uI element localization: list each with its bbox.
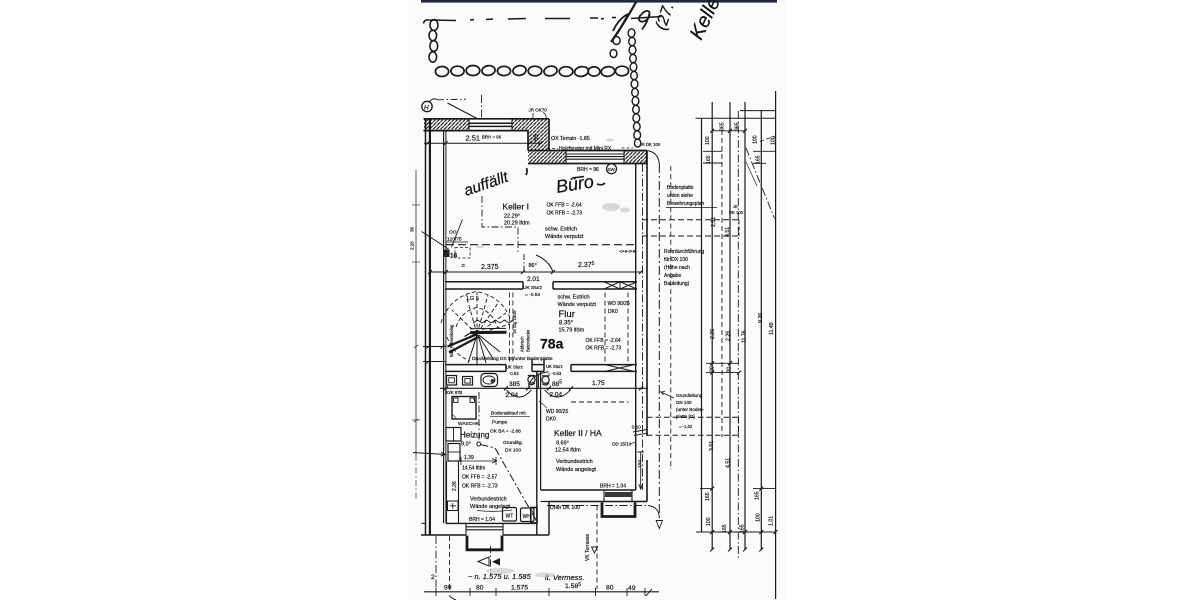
Keller II light shaft [602, 503, 635, 517]
diagonal leader to wall [448, 103, 478, 119]
north wall upper band hatch A [424, 119, 469, 131]
svg-text:UK Sturz: UK Sturz [523, 285, 543, 291]
bath south wall inner [446, 522, 538, 524]
east wall axis dash-dot [642, 164, 644, 490]
circled marker H top left [422, 101, 432, 111]
circled SW marker [607, 164, 617, 174]
svg-text:2.26: 2.26 [410, 241, 415, 250]
short solid diagonal [746, 162, 757, 186]
svg-text:JR DK 100: JR DK 100 [640, 142, 661, 147]
svg-text:=: = [462, 264, 466, 270]
svg-text:1.575: 1.575 [511, 585, 528, 592]
dashed line in Keller II [571, 401, 629, 403]
svg-text:165: 165 [755, 491, 761, 500]
dimension tick rows bottom [700, 488, 776, 490]
WH box [521, 508, 535, 522]
WC square fixture 2 [463, 377, 473, 386]
svg-text:1.75: 1.75 [592, 380, 605, 387]
dimension tick rows middle [706, 363, 739, 372]
right survey section vertical line 4 [760, 110, 762, 550]
svg-text:OK RFB = -2.73: OK RFB = -2.73 [462, 484, 498, 490]
svg-text:UK Sturz: UK Sturz [506, 365, 523, 370]
svg-text:Holzfenster mit Mini RX: Holzfenster mit Mini RX [559, 146, 612, 152]
svg-text:für DX 100: für DX 100 [664, 257, 688, 263]
svg-text:2.51: 2.51 [466, 134, 481, 143]
pier box bath SE corner [531, 508, 537, 524]
svg-text:Pumpe: Pumpe [492, 420, 508, 426]
swing marks [528, 376, 550, 386]
svg-text:DK0: DK0 [608, 309, 618, 315]
svg-text:14.54 lfdm: 14.54 lfdm [462, 466, 485, 472]
svg-text:BRH = 1.04: BRH = 1.04 [469, 517, 495, 523]
right survey section vertical line 0 [701, 118, 703, 532]
svg-text:DK0: DK0 [546, 417, 556, 423]
middle wall Heizung / Keller II [537, 371, 549, 535]
svg-text:Rohrdurchführung: Rohrdurchführung [664, 249, 705, 255]
svg-text:1.01: 1.01 [769, 516, 775, 526]
Grundleitung dashed trench box [647, 417, 739, 435]
west party wall lines [426, 119, 446, 535]
svg-text:unten siehe: unten siehe [667, 193, 693, 199]
Keller II floor south wall inner [541, 489, 636, 491]
leader from left [413, 452, 446, 456]
svg-text:Grundleitung: Grundleitung [676, 393, 703, 398]
svg-text:22.29°: 22.29° [504, 214, 520, 220]
north wall upper outlines [424, 119, 648, 164]
svg-text:16 Stg 18/25: 16 Stg 18/25 [512, 310, 517, 334]
svg-text:WD 90/25: WD 90/25 [546, 409, 568, 415]
Keller II window jambs [603, 490, 605, 502]
bath south wall outer [421, 534, 466, 536]
svg-text:4.51: 4.51 [725, 227, 731, 237]
svg-text:Verbundestrich: Verbundestrich [556, 459, 593, 465]
scan top bar [421, 0, 777, 3]
handwriting Ha [610, 2, 661, 58]
chimney block [452, 397, 476, 420]
lower window jambs and glazing [566, 151, 624, 164]
svg-text:OK FFB = -2.57: OK FFB = -2.57 [462, 475, 497, 481]
duct shaft dashed [604, 293, 606, 365]
bottom connector horizontal [696, 531, 777, 533]
flue shaft against west wall [446, 461, 448, 523]
svg-text:-0+8-0+8: -0+8-0+8 [619, 249, 636, 254]
site boundary dashed line [424, 18, 617, 24]
rotated dim labels top [705, 122, 777, 164]
svg-text:65: 65 [534, 134, 540, 141]
right survey section long vertical line 5 [775, 91, 777, 599]
small corner jog bottom left [422, 522, 426, 524]
svg-text:20: 20 [727, 367, 733, 373]
svg-text:Bad Fliesenbelag: Bad Fliesenbelag [449, 324, 454, 357]
right survey dashed vertical [721, 130, 723, 437]
svg-text:Bewehrungsplan: Bewehrungsplan [667, 201, 704, 207]
svg-text:30/K 87B: 30/K 87B [445, 390, 462, 395]
svg-text:2.26: 2.26 [452, 481, 458, 491]
dash-dot line below building left [435, 536, 437, 592]
svg-text:Bauleitung): Bauleitung) [664, 281, 690, 287]
svg-text:385: 385 [509, 381, 520, 388]
svg-text:-0.53: -0.53 [509, 371, 519, 376]
axis arrowhead [656, 521, 662, 529]
svg-text:= -0.63: = -0.63 [548, 371, 562, 376]
svg-text:9.26: 9.26 [758, 313, 764, 323]
svg-text:165: 165 [722, 524, 728, 533]
svg-text:36: 36 [410, 226, 415, 232]
svg-text:2: 2 [431, 574, 435, 581]
dashed line below building left 2 [449, 536, 451, 590]
WT box [503, 508, 517, 522]
dashed pipe run horizontals top right [642, 219, 739, 221]
svg-text:JR: JR [733, 205, 738, 209]
svg-text:165: 165 [756, 155, 762, 164]
svg-text:Wände angelegt: Wände angelegt [556, 467, 597, 473]
svg-text:schw. Estrich: schw. Estrich [558, 295, 590, 301]
svg-text:365: 365 [720, 122, 726, 131]
svg-text:WASCHK.: WASCHK. [458, 421, 480, 427]
north wall lower band hatch west [528, 151, 566, 164]
svg-text:165: 165 [706, 155, 712, 164]
svg-text:4.51: 4.51 [726, 458, 732, 468]
svg-text:Bodenablauf mit: Bodenablauf mit [491, 411, 526, 417]
svg-text:100: 100 [706, 517, 712, 526]
svg-text:86°: 86° [529, 263, 537, 269]
svg-text:Wände verputzt: Wände verputzt [558, 302, 597, 308]
Bodenplatte note [667, 185, 704, 207]
svg-text:= -0.53: = -0.53 [525, 292, 540, 298]
svg-text:S 10: S 10 [632, 425, 642, 430]
svg-text:BRH = 1.04: BRH = 1.04 [600, 484, 626, 490]
svg-text:2.04: 2.04 [506, 392, 519, 399]
svg-text:Heizung: Heizung [460, 431, 489, 440]
svg-text:SW: SW [608, 167, 616, 172]
right survey section vertical line 3 [744, 102, 746, 550]
section marker A [478, 557, 489, 566]
svg-text:165: 165 [740, 524, 746, 533]
svg-text:2.01: 2.01 [527, 276, 540, 283]
svg-text:OK FFB = -2.64: OK FFB = -2.64 [586, 338, 621, 344]
svg-text:DK 100: DK 100 [729, 210, 744, 215]
svg-text:WT: WT [506, 514, 514, 520]
svg-text:OK BA = -2.68: OK BA = -2.68 [490, 429, 521, 435]
rotated dim labels middle [709, 217, 775, 468]
dimension line 2.51 [424, 142, 542, 144]
wall Flur south [445, 359, 637, 372]
right survey section vertical line 2 [729, 102, 731, 550]
dash-dot leader top left [437, 98, 466, 101]
Draen DK 100 dash-dot [547, 505, 648, 507]
svg-text:3.51: 3.51 [709, 441, 715, 451]
svg-text:8.35°: 8.35° [559, 321, 574, 327]
wall Keller I / Flur [445, 282, 637, 289]
Grundleitung note right [676, 393, 705, 419]
svg-text:(unter Boden-: (unter Boden- [676, 407, 705, 412]
svg-text:Wände verputzt: Wände verputzt [545, 234, 584, 240]
svg-text:16: 16 [450, 253, 458, 260]
svg-text:OK RFB = -2.73: OK RFB = -2.73 [586, 346, 622, 352]
svg-text:VK Terrasse: VK Terrasse [585, 534, 591, 561]
svg-text:80: 80 [606, 585, 614, 592]
svg-text:schw. Estrich: schw. Estrich [545, 227, 577, 233]
dimension line Keller I south [430, 271, 642, 273]
svg-text:LG 5: LG 5 [467, 296, 479, 302]
svg-text:2.375: 2.375 [481, 264, 499, 271]
leaders to west window [422, 232, 449, 250]
axis dash-dot vertical above wall [481, 95, 483, 119]
VK Terrasse dashed line [596, 506, 598, 590]
svg-text:12.54 lfdm: 12.54 lfdm [555, 448, 581, 454]
svg-text:100: 100 [705, 136, 711, 145]
svg-text:Druckleitung DX 50/unter Boden: Druckleitung DX 50/unter Bodenplatte [472, 356, 553, 362]
svg-text:OD 15/10: OD 15/10 [612, 442, 632, 447]
boundary marker oval chain horizontal row [435, 65, 628, 78]
Rohrdurchfuehrung note [664, 249, 705, 287]
svg-text:20.29 lfdm: 20.29 lfdm [504, 221, 530, 227]
svg-text:OX Terrain -1.85: OX Terrain -1.85 [551, 136, 590, 142]
svg-text:JR OK70: JR OK70 [529, 108, 548, 113]
svg-text:165: 165 [705, 492, 711, 501]
tick slashes [710, 129, 777, 552]
svg-text:20: 20 [710, 366, 716, 372]
parallel dashed axis line [670, 166, 672, 470]
svg-text:BRH = 96: BRH = 96 [482, 135, 502, 140]
west wall window dark mark [443, 250, 450, 258]
top connector horizontal short [740, 110, 776, 112]
right survey section vertical line 1 [711, 102, 713, 550]
svg-text:platte [G]: platte [G] [676, 414, 695, 419]
svg-text:Keller II / HA: Keller II / HA [554, 428, 602, 438]
crossed lintel box north [604, 282, 637, 289]
axis dash-dot line with corner curve at building NE [648, 151, 660, 165]
faint pencil notes [468, 572, 584, 582]
svg-text:DN 100: DN 100 [676, 400, 692, 405]
svg-text:100: 100 [756, 513, 762, 522]
party wall dimension ticks [423, 345, 446, 364]
svg-text:Betondecke: Betondecke [526, 329, 531, 352]
svg-text:15.79 lfdm: 15.79 lfdm [559, 328, 585, 334]
north wall upper band hatch B [512, 119, 549, 131]
short dashed diagonal top right [760, 136, 777, 142]
floor drain pipe dash-dot [478, 392, 480, 442]
diagonal dash-dot leader right [746, 148, 775, 219]
dash-dot door axis Keller I [482, 196, 518, 254]
WC square fixture 1 [447, 376, 457, 386]
basin fixture [481, 374, 498, 387]
dimension tick rows top [703, 131, 776, 164]
svg-text:1.39: 1.39 [464, 455, 474, 461]
property line far left [415, 170, 417, 455]
north wall step hatch block [528, 131, 549, 151]
Keller II window dark sill [605, 492, 632, 497]
svg-text:= -1.62: = -1.62 [679, 424, 693, 429]
svg-text:100: 100 [753, 135, 759, 144]
svg-text:Angabe: Angabe [664, 273, 681, 279]
rotated dim labels bottom [705, 491, 775, 533]
svg-text:365: 365 [735, 122, 741, 131]
svg-text:99: 99 [444, 585, 452, 592]
Keller I door leaf and arc [523, 254, 525, 273]
east exterior wall lines [636, 151, 647, 502]
svg-text:100: 100 [771, 136, 777, 145]
svg-text:Keller I: Keller I [503, 202, 529, 212]
boundary marker oval chain vertical left [429, 20, 438, 63]
svg-text:49: 49 [628, 585, 636, 592]
north wall lower band hatch east [624, 151, 647, 164]
svg-text:78a: 78a [540, 336, 564, 352]
dashed niche box [455, 248, 470, 259]
svg-text:WD 90/25: WD 90/25 [608, 301, 630, 307]
svg-text:150: 150 [637, 460, 643, 468]
svg-text:Bodenplatte: Bodenplatte [667, 185, 694, 191]
svg-text:9.69°: 9.69° [556, 441, 569, 447]
staircase [441, 292, 513, 365]
crossed lintel box south [605, 365, 634, 372]
small diagonal below line [449, 596, 456, 600]
small door arc lower stair [529, 372, 549, 387]
svg-text:Grundltg.: Grundltg. [503, 440, 523, 446]
svg-text:11.76: 11.76 [742, 330, 748, 343]
Holzfenster label [547, 148, 558, 150]
leader to Grundleitung [661, 392, 674, 399]
svg-text:2.26: 2.26 [710, 329, 716, 339]
svg-text:(Höhe nach: (Höhe nach [664, 265, 690, 271]
boundary marker coil vertical right [628, 29, 641, 147]
svg-text:11.49: 11.49 [769, 322, 775, 335]
bottom dimension line [424, 591, 659, 593]
right survey dash-dot vertical [737, 111, 739, 560]
svg-text:H: H [424, 105, 429, 112]
svg-text:OK FFB = -2.64: OK FFB = -2.64 [547, 203, 582, 209]
svg-text:Flur: Flur [559, 309, 575, 320]
top connector horizontal [696, 117, 777, 119]
svg-text:OK RFB = -2.73: OK RFB = -2.73 [547, 211, 583, 217]
svg-text:2.26: 2.26 [726, 331, 732, 341]
svg-text:Drän DK 100: Drän DK 100 [550, 505, 580, 511]
svg-text:DX 100: DX 100 [505, 448, 521, 454]
room dashed line Keller I [446, 244, 637, 246]
vertical dim 1.50 [640, 452, 642, 488]
svg-text:80: 80 [476, 585, 484, 592]
svg-text:WH: WH [523, 514, 532, 520]
south wall outer east [549, 501, 647, 503]
west wall window rect 1 [446, 428, 461, 442]
svg-text:OO: OO [449, 230, 457, 236]
svg-text:UK Sturz: UK Sturz [546, 364, 563, 369]
dimension line mid [440, 387, 648, 389]
svg-text:Verbundestrich: Verbundestrich [470, 497, 507, 503]
bath window jambs and glazing [466, 523, 503, 535]
bath light shaft [467, 536, 502, 550]
svg-text:9.0°: 9.0° [461, 442, 471, 448]
west wall window rect 2 [448, 444, 460, 462]
upper window jambs and glazing [469, 119, 512, 131]
svg-text:2.51: 2.51 [711, 217, 717, 227]
svg-text:Abbruch: Abbruch [520, 336, 525, 352]
